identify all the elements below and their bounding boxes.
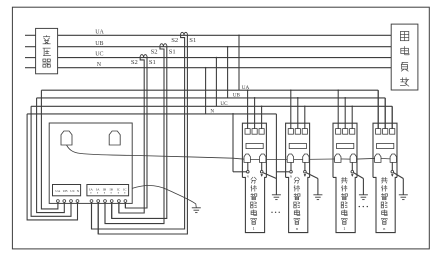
svg-text:IA: IA — [89, 188, 93, 192]
svg-text:UB: UB — [95, 41, 103, 47]
svg-text:S1: S1 — [189, 37, 196, 44]
svg-text:UC: UC — [95, 52, 103, 58]
svg-text:UA: UA — [95, 29, 104, 35]
svg-text:S2: S2 — [131, 59, 138, 66]
svg-text:N: N — [97, 62, 102, 68]
svg-text:1: 1 — [343, 226, 345, 231]
svg-text:S2: S2 — [151, 48, 158, 55]
svg-text:UB: UB — [63, 189, 68, 193]
svg-text:UB: UB — [233, 93, 241, 99]
svg-text:N: N — [210, 109, 214, 115]
svg-text:UC: UC — [220, 101, 228, 107]
svg-text:S1: S1 — [149, 59, 156, 66]
svg-text:IA: IA — [96, 188, 100, 192]
svg-text:UC: UC — [70, 189, 75, 193]
svg-text:UA: UA — [55, 189, 60, 193]
svg-text:S2: S2 — [171, 37, 178, 44]
svg-text:1: 1 — [253, 226, 255, 231]
svg-text:S1: S1 — [169, 48, 176, 55]
